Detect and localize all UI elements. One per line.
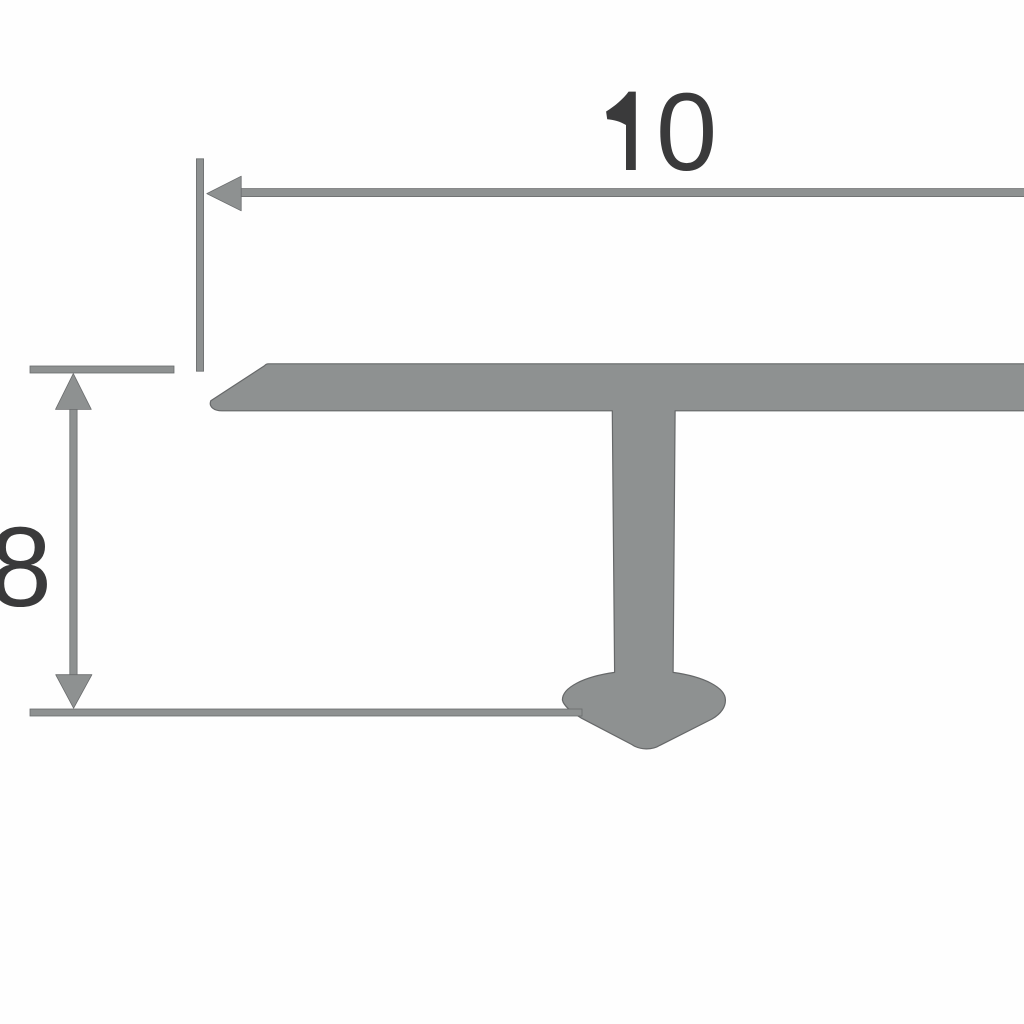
dimension line "10" horizontal with left arrowhead (240, 189, 1024, 197)
arrowhead up of "8" dimension (56, 374, 92, 410)
svg-text:0: 0 (656, 71, 717, 194)
extension line: bottom horizontal (level of profile bottom tip) (30, 709, 582, 716)
label "10" digit 1 (drawn) (606, 92, 636, 170)
arrowhead down of "8" dimension (56, 675, 92, 709)
arrowhead left of "10" dimension (207, 176, 241, 211)
extension line: top-left horizontal (level of profile top) (30, 366, 174, 373)
T-profile body (bar + stem + foot) (210, 364, 1024, 749)
svg-text:8: 8 (0, 504, 52, 630)
extension line: vertical tick at left end of "10" dimension (196, 159, 203, 371)
dimension line "8" vertical stem (70, 405, 77, 679)
